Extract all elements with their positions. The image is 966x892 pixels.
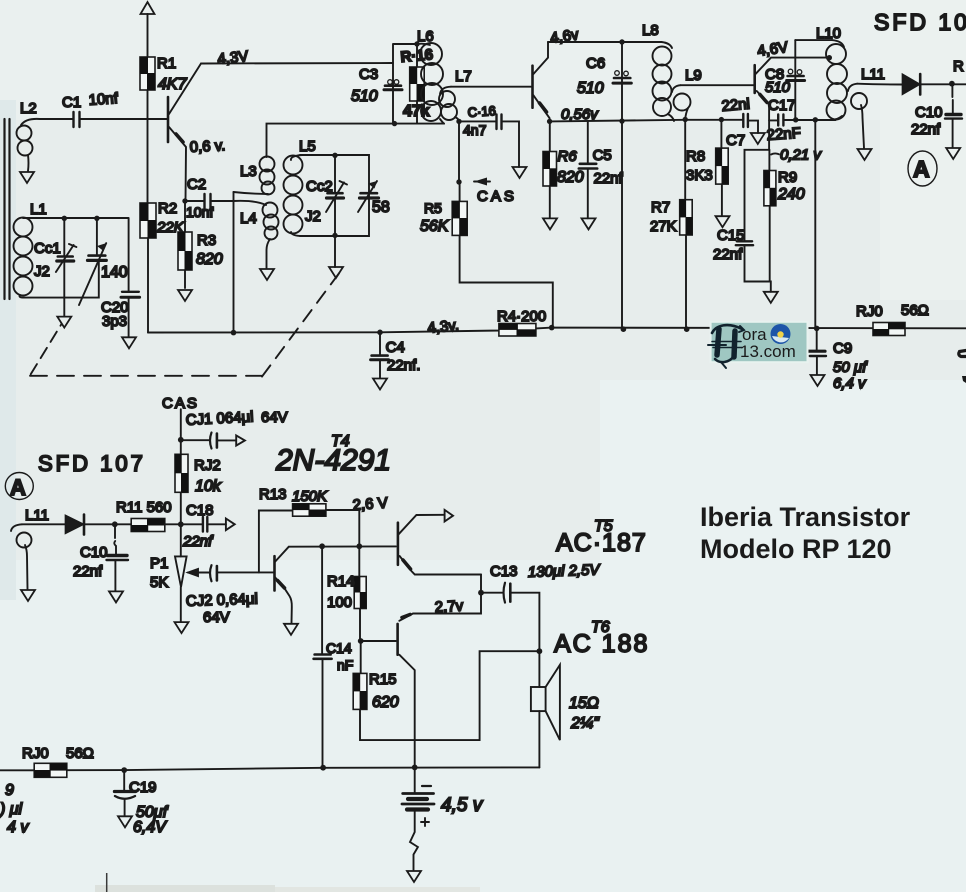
svg-text:56Ω: 56Ω [901,302,929,319]
svg-text:510: 510 [577,80,604,97]
capacitor C13 130uf [481,592,502,594]
capacitor C2 [185,200,234,202]
resistor R4 200 [499,324,536,337]
diode SFD107 (bottom) [66,516,84,534]
svg-text:C1: C1 [62,94,81,111]
svg-text:L8: L8 [642,22,659,39]
svg-text:2,7v: 2,7v [434,598,464,616]
resistor R9 240 [768,150,770,282]
svg-text:R: R [953,58,964,75]
node + capacitor C16 [456,119,461,124]
svg-text:0,6 v.: 0,6 v. [189,137,225,156]
svg-text:L6: L6 [417,28,434,45]
svg-text:C7: C7 [726,132,745,149]
transistor T4 [273,556,276,590]
svg-text:4,5 v: 4,5 v [441,795,484,816]
svg-text:J2: J2 [34,263,50,280]
coil L6 [420,43,442,65]
svg-text:Iberia Transistor: Iberia Transistor [700,502,911,532]
block wires [393,44,444,124]
speaker [537,648,543,654]
svg-text:R6: R6 [558,148,578,165]
svg-text:50 μf: 50 μf [833,359,868,376]
power symbol top [141,2,155,14]
ground (Cc1) [57,317,71,328]
svg-text:R3: R3 [197,232,216,249]
stray mark right edge [959,351,966,357]
svg-text:22nF: 22nF [766,125,801,144]
capacitor CJ1 064uf [181,439,209,441]
svg-text:C18: C18 [186,502,214,519]
svg-text:100: 100 [327,594,352,611]
svg-text:22nf: 22nf [594,170,624,187]
resistor R6 820 [549,121,551,218]
svg-text:C15: C15 [717,227,745,244]
svg-text:L9: L9 [685,67,702,84]
wire to diode [22,523,66,525]
svg-text:150K: 150K [292,488,328,505]
ground (battery) [407,871,421,882]
4.6V rail to L8 [548,41,662,43]
svg-text:0,56v: 0,56v [561,106,599,123]
wire 4.3V rail [148,328,966,333]
coil L3 [260,157,275,172]
svg-text:2N-4291: 2N-4291 [275,444,391,477]
ground bus [0,767,539,770]
dashed gang line (right) [262,267,344,377]
svg-text:L1: L1 [30,201,47,218]
CAS node + arrow [458,121,460,182]
svg-text:C17: C17 [768,97,796,114]
svg-text:2¼": 2¼" [570,715,600,732]
svg-text:C10: C10 [80,544,108,561]
svg-text:C6: C6 [586,55,605,72]
svg-text:J2: J2 [305,208,321,225]
svg-text:2,6 V: 2,6 V [352,495,388,514]
resistor R16 47k [416,44,418,124]
ground (L4) [260,269,274,280]
svg-text:510: 510 [765,79,791,96]
svg-text:CJ1 064μl: CJ1 064μl [185,408,254,429]
variable capacitor 58 [361,192,378,195]
ground (C9) [811,375,825,386]
svg-text:C13: C13 [490,563,518,580]
ground (C20) [122,337,136,348]
svg-text:4K7: 4K7 [158,76,188,93]
svg-text:RJ0: RJ0 [856,303,883,320]
transformer box L5 [300,155,369,236]
svg-text:10k: 10k [195,478,222,495]
capacitor C5 [587,121,589,163]
svg-text:64V: 64V [203,609,230,626]
wiper arrow + capacitor CJ2 [188,569,198,576]
capacitor C8 510 [794,40,796,119]
resistor R10 56ohm (bottom) [34,763,67,777]
wire to C13 node [480,575,482,593]
svg-text:4,3v.: 4,3v. [427,317,460,337]
antenna ferrite bar [5,119,10,299]
svg-text:SFD 107: SFD 107 [38,451,146,476]
transistor T3 [753,65,756,93]
dashed gang line (left) [31,324,62,374]
svg-text:AC·187: AC·187 [556,529,647,557]
resistor R13 150k [259,510,359,572]
svg-text:AC 188: AC 188 [554,630,649,658]
svg-text:56Ω: 56Ω [66,745,94,762]
svg-text:nF: nF [337,657,353,673]
svg-text:6,4 v: 6,4 v [833,375,867,392]
svg-text:130μl 2,5V: 130μl 2,5V [528,561,602,581]
resistor R10 56ohm (top) [873,323,905,336]
svg-text:SFD 10: SFD 10 [874,9,966,35]
svg-text:R2: R2 [158,200,177,217]
svg-text:Modelo RP 120: Modelo RP 120 [700,534,892,564]
diode SFD107 [903,75,920,95]
trimmer Cc1 [63,218,65,256]
svg-text:620: 620 [372,694,399,711]
capacitor C7 22nf [743,114,748,127]
potentiometer P1 5K [180,524,182,556]
svg-text:58: 58 [372,199,390,216]
capacitor C17 22nF [769,119,778,121]
capacitor C18 22nf [203,517,207,532]
dashed gang line (horizontal) [30,375,262,377]
coil L1 [14,218,33,237]
resistor R11 560 [131,519,165,532]
svg-text:R1: R1 [157,55,176,72]
coil L2 [21,119,40,125]
svg-text:R11 560: R11 560 [116,499,172,516]
svg-text:Cc1: Cc1 [34,240,61,257]
svg-text:4n7: 4n7 [463,122,487,138]
svg-text:C10: C10 [915,104,943,121]
svg-text:R5: R5 [424,200,442,216]
svg-text:3p3: 3p3 [102,313,127,330]
capacitor C20 3p3 [128,218,130,291]
ground (R9/C15) [764,292,778,303]
svg-text:C9: C9 [833,340,852,357]
resistor R1 4k7 [140,57,155,90]
svg-text:A: A [10,475,26,500]
ground (Cc2) [329,267,343,278]
svg-text:C14: C14 [326,640,352,656]
svg-text:22nf: 22nf [73,563,103,580]
coil L5 [291,155,302,160]
4.3V rail to C3 block [201,62,393,65]
svg-text:64V: 64V [261,409,288,426]
wire L9 to T3 base [681,84,754,86]
ground (C7) [751,133,765,144]
svg-text:L3: L3 [240,163,257,180]
svg-text:R15: R15 [369,671,397,688]
svg-text:R8: R8 [686,148,705,165]
coil L4 [234,201,267,205]
svg-text:C2: C2 [187,176,206,193]
wire vertical to rail [233,192,235,333]
svg-text:L5: L5 [299,138,316,155]
svg-text:820: 820 [557,169,584,186]
svg-text:R7: R7 [651,199,670,216]
0.21V label [771,153,779,154]
svg-text:RJ2: RJ2 [194,457,221,474]
emitter rail to C7/C17 [685,119,743,121]
wire to diode [857,83,902,86]
battery 4.5V [414,767,416,792]
resistor R15 620 [360,641,539,740]
svg-text:6,4V: 6,4V [133,819,167,836]
wire R1 vertical [147,14,150,333]
svg-text:27K: 27K [650,218,677,235]
capacitor C1 [40,118,167,120]
wire 2.7V [399,593,481,621]
svg-text:22nl: 22nl [721,96,751,115]
capacitor C10 (bottom) [114,524,116,554]
capacitor C4 22nf [379,332,381,355]
variable capacitor 140 [94,216,99,221]
svg-text:L4: L4 [240,210,257,227]
svg-text:L11: L11 [861,66,885,83]
svg-text:CAS: CAS [477,188,517,205]
svg-text:RJ0: RJ0 [22,745,49,762]
ground (C19) [118,816,132,827]
svg-text:L2: L2 [20,100,37,117]
svg-text:4 v: 4 v [7,819,29,836]
ground (C4) [373,379,387,390]
svg-text:P1: P1 [150,555,168,572]
bottom faint scan bar [95,885,275,892]
capacitor C15 22nf [745,150,770,241]
transistor T6 [396,624,399,655]
L1 block bottom wire [24,262,99,298]
ground (R6) [543,218,557,229]
svg-text:820: 820 [196,251,223,268]
capacitor C3 [385,84,401,87]
wire L3 top to L6 block bottom [267,124,394,157]
svg-text:10nf: 10nf [186,204,213,220]
svg-text:Cc2: Cc2 [306,178,333,195]
svg-text:22nf: 22nf [713,246,743,263]
ground (C16) [513,167,527,178]
resistor R12 10k [180,409,182,524]
svg-text:4,3V: 4,3V [217,48,249,68]
trimmer Cc2 [334,155,336,192]
wire T4 collector to T5 base [289,545,396,547]
svg-text:C·16: C·16 [467,103,496,120]
svg-text:3K3: 3K3 [686,167,713,184]
svg-text:R13: R13 [259,486,287,503]
ground (R8) [716,216,730,227]
svg-text:140: 140 [101,264,128,281]
svg-text:R4·200: R4·200 [497,308,546,325]
watermark hora13.com [708,322,808,368]
battery lead + break [410,812,418,870]
svg-text:56K: 56K [420,218,450,235]
svg-text:5K: 5K [150,574,168,591]
svg-text:C19: C19 [129,779,157,796]
svg-text:47k: 47k [403,103,430,120]
capacitor C19 50uf [123,770,125,791]
svg-text:22nf.: 22nf. [387,357,420,374]
ground (C10 bottom) [109,591,123,602]
capacitor C6 [621,42,623,329]
capacitor C14 nF [321,546,323,654]
transistor T5 [397,523,400,565]
resistor R5 56k [460,182,553,328]
svg-text:C4: C4 [386,339,405,356]
svg-text:10nf: 10nf [88,90,119,109]
resistor R3 820 [184,201,186,288]
resistor R7 27K [684,120,687,330]
svg-text:9: 9 [5,782,14,799]
ground (R3) [178,290,192,301]
svg-text:510: 510 [351,88,378,105]
node A (top right) [908,151,937,186]
node A (bottom left) [5,473,33,500]
svg-text:22nf: 22nf [911,121,941,138]
svg-text:CJ2 0,64μl: CJ2 0,64μl [186,590,259,610]
svg-text:A: A [913,156,930,182]
svg-text:13.com: 13.com [740,342,796,361]
svg-text:L7: L7 [455,68,472,85]
svg-text:L11: L11 [25,507,49,524]
transistor T2 [531,66,534,108]
node (emitter/C2/R3) [182,198,187,203]
capacitor C10 (top right) [951,84,953,114]
ground (P1) [175,622,189,633]
svg-text:R9: R9 [778,169,797,186]
svg-text:CAS: CAS [162,395,199,412]
emitter rail 0.56V [550,120,686,122]
svg-text:15Ω: 15Ω [569,695,599,712]
svg-text:) μl: ) μl [0,801,23,818]
capacitor C9 50uf [816,328,818,350]
svg-text:C5: C5 [593,147,612,164]
wire L7 to T2 base [451,86,531,88]
vertical from L10 bottom to supply rail [814,120,816,329]
ground (C10 top) [946,148,960,159]
svg-text:R14: R14 [327,573,355,590]
resistor R8 3K3 [720,120,723,216]
coil L1 block top wire [23,217,129,219]
transistor T1 [167,97,170,142]
ground (L2) [20,172,34,183]
svg-text:240: 240 [777,186,805,203]
svg-text:C3: C3 [359,66,378,83]
ground (C5) [582,218,596,229]
resistor R14 100 [358,509,361,641]
resistor R2 22k [140,203,156,238]
svg-text:22nf: 22nf [182,533,214,550]
